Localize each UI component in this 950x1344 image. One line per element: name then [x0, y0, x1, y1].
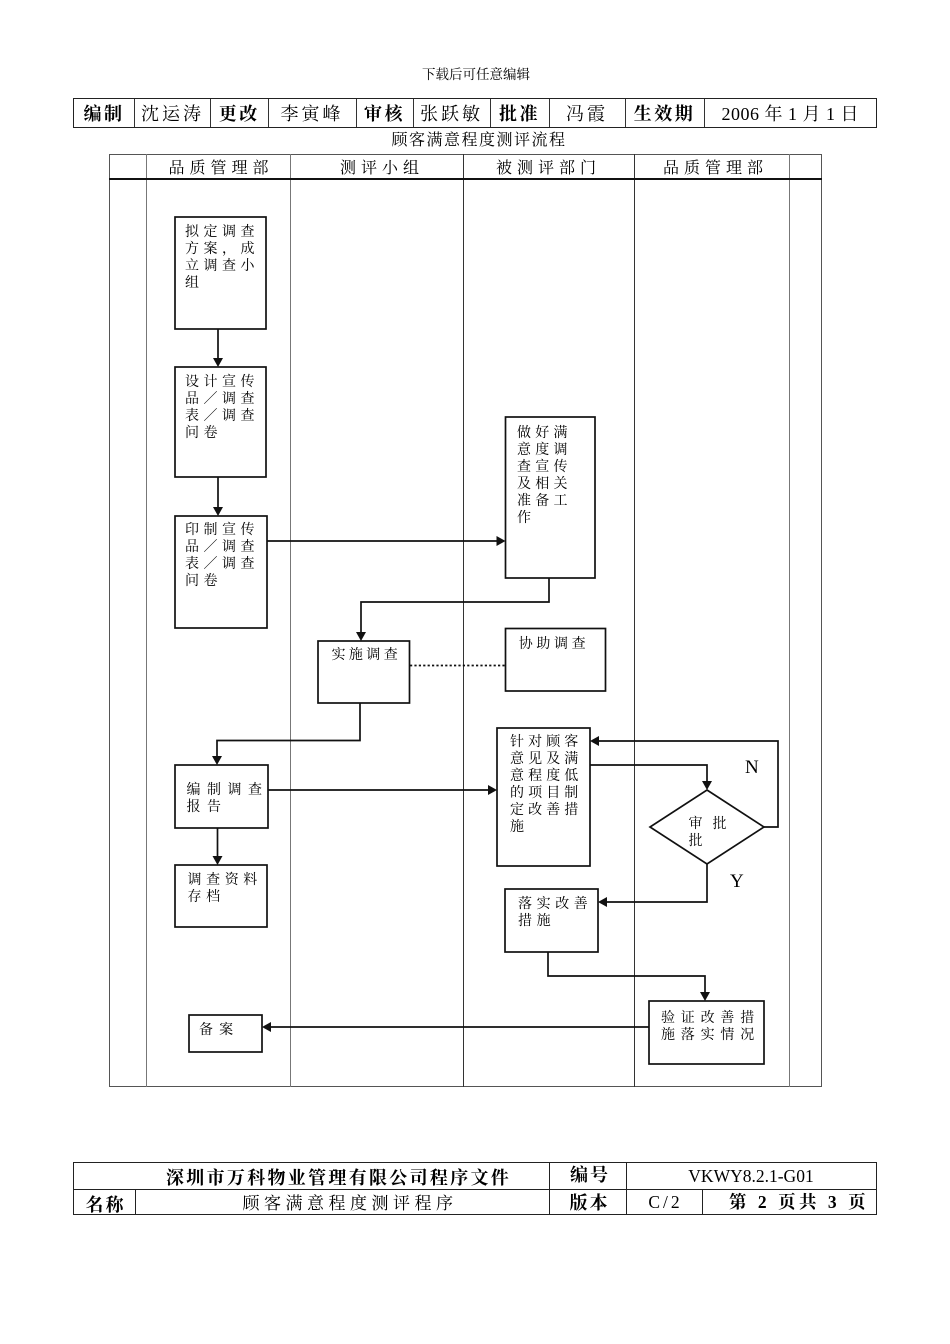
footer row divider [73, 1189, 877, 1190]
lane header 测评小组 [340, 155, 424, 178]
lane header 被测评部门 [496, 155, 601, 178]
footer text 顾客满意程度测评程序 [243, 1189, 458, 1214]
swimlane divider 5 [789, 154, 790, 1088]
wire B3 to B4 [267, 540, 497, 542]
footer col divider 名称 (row2 only) [135, 1189, 136, 1215]
box B5 实施调查 [318, 641, 410, 703]
arrowhead into B7 [212, 756, 222, 765]
swimlane frame [109, 154, 822, 1088]
wire B2 to B3 [217, 477, 219, 508]
text B5 [332, 647, 402, 664]
text B1 [185, 224, 259, 292]
swimlane divider 2 [290, 154, 291, 1088]
text B11 [518, 896, 592, 930]
wire B4 to B5 [361, 578, 549, 633]
arrowhead into B5 [356, 632, 366, 641]
text B3 [185, 522, 259, 590]
box B13 备案 [189, 1015, 262, 1052]
flow title 顾客满意程度测评流程 [391, 127, 566, 150]
decision diamond 审批 [650, 790, 764, 864]
text B2 [185, 374, 259, 442]
footer page 第 2 页共 3 页 [729, 1189, 869, 1214]
footer col divider after 编号 [626, 1162, 627, 1215]
footer text 深圳市万科物业管理有限公司程序文件 [166, 1164, 511, 1190]
arrowhead into B3 [213, 507, 223, 516]
lane header 品质管理部 [168, 155, 273, 178]
swimlane divider 3 [463, 154, 464, 1088]
arrowhead N into B9 [590, 736, 599, 746]
text B13 [199, 1022, 239, 1039]
wire B1 to B2 [217, 329, 219, 359]
lane header 品质管理部 (right) [663, 155, 768, 178]
box B1 拟定调查方案成立调查小组 [175, 217, 266, 329]
text B9 [510, 734, 582, 836]
arrowhead into B9 from B7 [488, 785, 497, 795]
wire Y path [606, 864, 707, 902]
wire B7 to B9 [268, 789, 489, 791]
arrowhead into B12 [700, 992, 710, 1001]
text B12 [661, 1010, 760, 1044]
footer value C/2 [648, 1192, 682, 1213]
box B11 落实改善措施 [505, 889, 598, 952]
swimlane header underline [109, 178, 822, 180]
label N [745, 757, 759, 779]
arrowhead into B4 [497, 536, 506, 546]
arrowhead into B2 [213, 358, 223, 367]
text diamond [689, 816, 737, 850]
wire B9 to diamond [590, 765, 707, 782]
text B6 [519, 636, 589, 653]
box B9 针对顾客意见制定改善措施 [497, 728, 590, 866]
wire N loop [598, 741, 778, 827]
arrowhead into B13 [262, 1022, 271, 1032]
text B4 [517, 425, 572, 527]
footer label 名称 [86, 1191, 126, 1217]
box B4 做好满意度调查宣传及相关准备工作 [506, 417, 596, 578]
box B3 印制宣传品调查表调查问卷 [175, 516, 267, 628]
footer label 编号 [570, 1161, 610, 1187]
wire B5 to B7 [217, 703, 360, 757]
dotted link B5 to B6 [410, 665, 505, 667]
watermark note 下载后可任意编辑 [422, 63, 530, 83]
box B7 编制调查报告 [175, 765, 268, 828]
wire B11 to B12 [548, 952, 705, 993]
label Y [730, 871, 744, 893]
box B8 调查资料存档 [175, 865, 267, 927]
wire B12 to B13 [270, 1026, 649, 1028]
box B2 设计宣传品调查表调查问卷 [175, 367, 266, 477]
footer label 版本 [570, 1189, 610, 1215]
arrowhead into B8 [213, 856, 223, 865]
footer col divider before 编号 [549, 1162, 550, 1215]
text B8 [188, 872, 262, 906]
text B7 [187, 782, 269, 816]
swimlane divider 1 [146, 154, 147, 1088]
approval table [73, 98, 877, 128]
arrowhead Y into B11 [598, 897, 607, 907]
box B12 验证改善措施落实情况 [649, 1001, 764, 1064]
footer value VKWY8.2.1-G01 [688, 1166, 813, 1187]
footer col divider after C/2 (row2 only) [702, 1189, 703, 1215]
box B6 协助调查 [506, 629, 606, 692]
arrowhead into diamond [702, 781, 712, 790]
swimlane divider 4 [634, 154, 635, 1088]
footer table [73, 1162, 877, 1215]
wire B7 to B8 [217, 828, 219, 857]
